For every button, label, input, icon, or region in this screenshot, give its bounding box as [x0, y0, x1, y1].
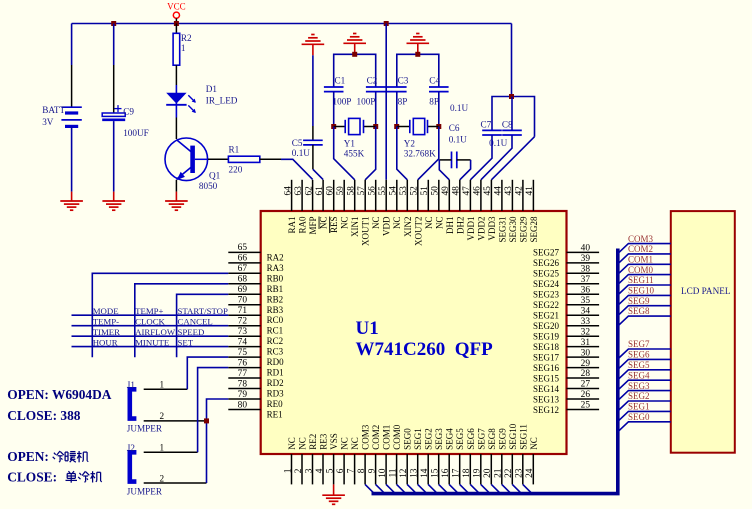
- pin 34 SEG21 right: [567, 314, 600, 316]
- svg-text:SEG9: SEG9: [497, 428, 507, 450]
- pin 29 SEG16 right: [567, 367, 600, 369]
- svg-text:52: 52: [410, 186, 420, 196]
- pin 4 RE3 bottom: [322, 454, 324, 484]
- wire net COM0: [618, 275, 671, 285]
- pin 28 SEG15 right: [567, 377, 600, 379]
- wire C6 to DH1: [439, 160, 449, 180]
- pin 6 NC bottom: [343, 454, 345, 484]
- wire C3 to XIN2: [397, 127, 408, 180]
- pin 24 NC bottom: [532, 454, 534, 484]
- wire C6 to DH2: [460, 160, 471, 180]
- svg-text:4: 4: [315, 468, 325, 473]
- pin 8 COM3 bottom: [364, 454, 366, 484]
- wire net SEG11: [618, 285, 671, 295]
- svg-text:SEG18: SEG18: [533, 342, 560, 352]
- svg-text:DH2: DH2: [455, 217, 465, 235]
- svg-text:31: 31: [581, 338, 591, 348]
- svg-text:NC: NC: [319, 217, 329, 230]
- svg-text:NC: NC: [434, 217, 444, 230]
- svg-text:3: 3: [304, 468, 314, 473]
- svg-text:SEG25: SEG25: [533, 269, 560, 279]
- svg-text:TEMP+: TEMP+: [135, 306, 163, 316]
- pin 53 XIN2 top: [406, 180, 408, 211]
- junction rail-VDD: [384, 21, 389, 26]
- svg-text:U1: U1: [356, 318, 379, 339]
- svg-text:22: 22: [504, 468, 514, 478]
- svg-text:VDD2: VDD2: [476, 217, 486, 241]
- svg-text:15: 15: [431, 468, 441, 478]
- svg-text:D1: D1: [206, 84, 218, 94]
- svg-text:47: 47: [462, 186, 472, 196]
- svg-text:3V: 3V: [42, 117, 54, 127]
- svg-text:R1: R1: [229, 144, 240, 154]
- svg-text:NC: NC: [287, 437, 297, 450]
- svg-text:34: 34: [581, 306, 591, 316]
- wire net COM1: [618, 264, 671, 274]
- svg-text:77: 77: [238, 369, 248, 379]
- svg-text:SEG7: SEG7: [628, 339, 650, 349]
- svg-text:SEG12: SEG12: [533, 405, 559, 415]
- svg-text:XIN2: XIN2: [403, 217, 413, 238]
- svg-text:33: 33: [581, 317, 591, 327]
- pin 7 NC bottom: [354, 454, 356, 484]
- wire pin14 to bus: [428, 484, 436, 492]
- pin 2 NC bottom: [301, 454, 303, 484]
- svg-text:MODE: MODE: [93, 306, 119, 316]
- svg-text:1: 1: [283, 468, 293, 473]
- pin 27 SEG14 right: [567, 388, 600, 390]
- connector J2 JUMPER: [130, 452, 137, 481]
- svg-text:1: 1: [160, 380, 165, 390]
- svg-text:27: 27: [581, 380, 591, 390]
- svg-text:63: 63: [294, 186, 304, 196]
- svg-text:SEG5: SEG5: [628, 360, 650, 370]
- svg-text:0.1U: 0.1U: [449, 135, 467, 145]
- svg-text:0.1U: 0.1U: [292, 148, 310, 158]
- op-amp U1 body (IC W741C260 QFP): [261, 211, 567, 454]
- svg-text:JUMPER: JUMPER: [127, 487, 163, 497]
- svg-text:28: 28: [581, 369, 591, 379]
- svg-text:SEG26: SEG26: [533, 258, 560, 268]
- svg-text:NC: NC: [371, 217, 381, 230]
- svg-text:SEG3: SEG3: [628, 381, 650, 391]
- wire net SEG7: [618, 349, 671, 359]
- svg-text:C5: C5: [292, 138, 303, 148]
- svg-text:J2: J2: [127, 443, 136, 453]
- wire C4 to XOUT2: [418, 127, 439, 180]
- svg-text:COM1: COM1: [628, 255, 653, 265]
- wire BATT to ground: [71, 126, 73, 191]
- wire rail to BATT: [71, 24, 73, 66]
- pin 56 NC top: [375, 180, 377, 211]
- pin 77 RD2 left: [228, 377, 260, 379]
- svg-text:RD3: RD3: [267, 389, 285, 399]
- svg-text:RD0: RD0: [267, 357, 285, 367]
- svg-text:80: 80: [238, 400, 248, 410]
- svg-text:VDD3: VDD3: [487, 216, 497, 240]
- svg-text:R2: R2: [181, 33, 192, 43]
- wire pin11 to bus: [397, 484, 405, 492]
- svg-text:8P: 8P: [398, 96, 408, 106]
- wire J2-1 to RD1: [198, 368, 229, 453]
- pin J1-1: [144, 388, 188, 390]
- pin 19 SEG7 bottom: [480, 454, 482, 484]
- svg-text:9: 9: [367, 468, 377, 473]
- connector J1 JUMPER: [130, 389, 137, 418]
- pin 58 XIN1 top: [354, 180, 356, 211]
- svg-text:VCC: VCC: [167, 2, 186, 12]
- svg-text:SEG22: SEG22: [533, 300, 559, 310]
- svg-text:455K: 455K: [344, 149, 365, 159]
- pin 10 COM1 bottom: [385, 454, 387, 484]
- pin 5 VSS bottom: [333, 454, 335, 484]
- wire net SEG10: [618, 295, 671, 305]
- capacitor C9 100UF: [113, 65, 115, 113]
- svg-text:SEG27: SEG27: [533, 248, 560, 258]
- junction Y1 left: [331, 124, 336, 129]
- svg-text:RES: RES: [329, 217, 339, 234]
- svg-text:C7: C7: [481, 120, 492, 130]
- pin 36 SEG23 right: [567, 293, 600, 295]
- svg-text:66: 66: [238, 254, 248, 264]
- junction C7C8: [509, 94, 514, 99]
- pin 62 MFP top: [312, 180, 314, 211]
- svg-text:68: 68: [238, 275, 248, 285]
- pin 48 DH2 top: [459, 180, 461, 211]
- pin 64 RA1 top: [291, 180, 293, 211]
- svg-text:C3: C3: [398, 76, 409, 86]
- wire to VDD3: [491, 137, 534, 180]
- svg-text:20: 20: [483, 468, 493, 478]
- svg-text:START/STOP: START/STOP: [178, 306, 229, 316]
- svg-text:72: 72: [238, 317, 248, 327]
- pin 17 SEG5 bottom: [459, 454, 461, 484]
- wire pin12 to bus: [407, 484, 415, 492]
- svg-text:55: 55: [378, 186, 388, 196]
- svg-text:RA2: RA2: [267, 252, 284, 262]
- ground above Y2 net: [417, 43, 419, 54]
- svg-text:30: 30: [581, 348, 591, 358]
- svg-text:17: 17: [452, 468, 462, 478]
- svg-text:RC1: RC1: [267, 326, 284, 336]
- pin 75 RD0 left: [228, 356, 260, 358]
- wire VSS: [333, 484, 335, 495]
- svg-text:75: 75: [238, 348, 248, 358]
- svg-text:NC: NC: [340, 437, 350, 450]
- wire pin23 to bus: [523, 484, 531, 492]
- svg-text:42: 42: [515, 186, 525, 196]
- wire R1 to MFP: [260, 158, 281, 160]
- wire C2 to Y1: [375, 92, 377, 127]
- svg-text:2: 2: [160, 411, 165, 421]
- svg-text:Y2: Y2: [404, 139, 416, 149]
- svg-text:CLOSE: 388: CLOSE: 388: [7, 408, 81, 423]
- svg-text:6: 6: [336, 468, 346, 473]
- pin J2-1: [144, 451, 198, 453]
- svg-text:COM2: COM2: [371, 425, 381, 450]
- svg-text:60: 60: [326, 186, 336, 196]
- svg-text:VDD1: VDD1: [466, 217, 476, 241]
- pin 30 SEG17 right: [567, 356, 600, 358]
- pin 49 DH1 top: [448, 180, 450, 211]
- svg-text:BATT: BATT: [42, 105, 65, 115]
- svg-text:SEG4: SEG4: [445, 428, 455, 450]
- svg-text:64: 64: [283, 186, 293, 196]
- wire pin15 to bus: [439, 484, 447, 492]
- svg-text:TEMP-: TEMP-: [93, 317, 119, 327]
- pin 61 NC top: [322, 180, 324, 211]
- wire C5 to pin61: [312, 145, 314, 169]
- wire rail to C9: [113, 24, 115, 66]
- svg-text:48: 48: [452, 186, 462, 196]
- svg-text:SEG6: SEG6: [466, 428, 476, 450]
- wire net COM3: [618, 244, 671, 254]
- pin 38 SEG25 right: [567, 272, 600, 274]
- pin 3 RE2 bottom: [312, 454, 314, 484]
- wire RB2 column: [177, 294, 229, 357]
- svg-text:0.1U: 0.1U: [450, 103, 468, 113]
- svg-text:46: 46: [473, 186, 483, 196]
- svg-text:NC: NC: [350, 437, 360, 450]
- pin 42 SEG29 top: [522, 180, 524, 211]
- svg-text:SEG17: SEG17: [533, 352, 560, 362]
- wire net SEG9: [618, 306, 671, 316]
- svg-text:36: 36: [581, 286, 591, 296]
- svg-text:SEG4: SEG4: [628, 370, 650, 380]
- svg-text:19: 19: [473, 468, 483, 478]
- svg-text:58: 58: [347, 186, 357, 196]
- svg-text:8050: 8050: [199, 181, 218, 191]
- svg-text:21: 21: [494, 468, 504, 478]
- svg-text:37: 37: [581, 275, 591, 285]
- pin 72 RC1 left: [228, 325, 260, 327]
- svg-text:SEG10: SEG10: [628, 286, 655, 296]
- svg-text:SEG24: SEG24: [533, 279, 560, 289]
- svg-text:IR_LED: IR_LED: [206, 96, 238, 106]
- capacitor C7 0.1U: [482, 129, 502, 131]
- pin 73 RC2 left: [228, 335, 260, 337]
- wire pin19 to bus: [481, 484, 489, 492]
- svg-text:NC: NC: [340, 217, 350, 230]
- svg-text:RA0: RA0: [298, 216, 308, 234]
- resistor R1 220: [228, 156, 259, 162]
- wire pin13 to bus: [418, 484, 426, 492]
- pin 13 SEG1 bottom: [417, 454, 419, 484]
- svg-text:61: 61: [315, 186, 325, 196]
- svg-text:OPEN: W6904DA: OPEN: W6904DA: [7, 387, 112, 402]
- wire net SEG3: [618, 391, 671, 401]
- wire R2 to D1: [175, 65, 177, 85]
- pin 11 COM0 bottom: [396, 454, 398, 484]
- wire C7-C8 top: [492, 97, 535, 137]
- svg-text:69: 69: [238, 285, 248, 295]
- svg-text:JUMPER: JUMPER: [127, 424, 163, 434]
- wire pin8 to bus: [365, 484, 373, 492]
- junction Y1 top: [352, 52, 357, 57]
- wire C4 to Y2: [438, 92, 440, 127]
- pin 69 RB2 left: [228, 293, 260, 295]
- svg-text:SEG0: SEG0: [628, 412, 650, 422]
- pin 44 SEG31 top: [501, 180, 503, 211]
- svg-text:SEG14: SEG14: [533, 384, 560, 394]
- svg-text:57: 57: [357, 186, 367, 196]
- svg-text:Q1: Q1: [209, 170, 221, 180]
- svg-text:C2: C2: [367, 76, 378, 86]
- wire net SEG8: [618, 316, 671, 326]
- svg-text:1: 1: [160, 443, 165, 453]
- pin 16 SEG4 bottom: [448, 454, 450, 484]
- resistor R2 1: [175, 24, 177, 34]
- pin 51 NC top: [427, 180, 429, 211]
- svg-text:56: 56: [368, 186, 378, 196]
- wire pin20 to bus: [491, 484, 499, 492]
- svg-text:SEG23: SEG23: [533, 290, 560, 300]
- pin 43 SEG30 top: [511, 180, 513, 211]
- pin 57 XOUT1 top: [364, 180, 366, 211]
- svg-text:5: 5: [325, 468, 335, 473]
- capacitor C8 0.1U: [502, 129, 522, 131]
- pin 80 RE1 left: [228, 409, 260, 411]
- ground VSS: [322, 494, 345, 496]
- svg-text:59: 59: [336, 186, 346, 196]
- capacitor C6 0.1U: [451, 152, 453, 169]
- svg-text:SEG16: SEG16: [533, 363, 560, 373]
- svg-text:1: 1: [181, 43, 186, 53]
- pin 76 RD1 left: [228, 367, 260, 369]
- pin 32 SEG19 right: [567, 335, 600, 337]
- svg-text:SEG6: SEG6: [628, 350, 650, 360]
- wire RC2 row: [72, 335, 229, 337]
- pin 33 SEG20 right: [567, 325, 600, 327]
- svg-text:SEG13: SEG13: [533, 394, 560, 404]
- junction rail-R2: [174, 21, 179, 26]
- wire pin21 to bus: [502, 484, 510, 492]
- pin 15 SEG3 bottom: [438, 454, 440, 484]
- capacitor C1 100P: [324, 86, 344, 88]
- pin 70 RB3 left: [228, 304, 260, 306]
- svg-text:14: 14: [420, 468, 430, 478]
- pin 23 SEG11 bottom: [522, 454, 524, 484]
- wire VCC to VDD pin55: [385, 24, 387, 180]
- svg-text:RB1: RB1: [267, 284, 284, 294]
- pin 41 SEG28 top: [532, 180, 534, 211]
- pin 26 SEG13 right: [567, 398, 600, 400]
- svg-text:100UF: 100UF: [123, 128, 149, 138]
- svg-text:LCD PANEL: LCD PANEL: [681, 286, 731, 296]
- svg-text:41: 41: [525, 186, 535, 196]
- junction Y2 right: [436, 124, 441, 129]
- svg-text:NC: NC: [392, 217, 402, 230]
- pin 20 SEG8 bottom: [490, 454, 492, 484]
- svg-text:2: 2: [160, 473, 165, 483]
- capacitor C2 100P: [366, 86, 386, 88]
- ground above Y1 net: [354, 43, 356, 54]
- svg-text:C9: C9: [123, 106, 134, 116]
- battery BATT 3V: [71, 65, 73, 107]
- svg-text:COM0: COM0: [628, 265, 654, 275]
- svg-text:SEG8: SEG8: [628, 306, 650, 316]
- svg-text:32.768K: 32.768K: [404, 149, 436, 159]
- svg-text:SEG7: SEG7: [476, 428, 486, 450]
- wire pin10 to bus: [386, 484, 394, 492]
- svg-text:SEG9: SEG9: [628, 296, 650, 306]
- pin 40 SEG27 right: [567, 251, 600, 253]
- svg-text:51: 51: [420, 186, 430, 196]
- wire C1 to Y1: [333, 92, 335, 127]
- svg-text:SEG20: SEG20: [533, 321, 560, 331]
- wire RB0 column: [92, 273, 228, 357]
- svg-text:CLOCK: CLOCK: [135, 317, 165, 327]
- svg-text:40: 40: [581, 244, 591, 254]
- svg-text:29: 29: [581, 359, 591, 369]
- svg-text:12: 12: [399, 468, 409, 478]
- svg-text:XIN1: XIN1: [350, 217, 360, 238]
- svg-text:43: 43: [504, 186, 514, 196]
- svg-text:CLOSE:: CLOSE:: [7, 469, 57, 484]
- svg-text:RE0: RE0: [267, 399, 284, 409]
- svg-text:23: 23: [515, 468, 525, 478]
- svg-text:67: 67: [238, 264, 248, 274]
- svg-text:100P: 100P: [357, 96, 376, 106]
- pin 25 SEG12 right: [567, 409, 600, 411]
- pin 46 VDD2 top: [480, 180, 482, 211]
- LCD panel: [671, 211, 735, 453]
- capacitor C4 8P: [429, 86, 449, 88]
- svg-text:J1: J1: [127, 380, 136, 390]
- pin 79 RE0 left: [228, 398, 260, 400]
- pin 37 SEG24 right: [567, 283, 600, 285]
- wire C9 to ground: [113, 121, 115, 192]
- pin J2-2: [144, 482, 207, 484]
- pin 67 RB0 left: [228, 272, 260, 274]
- pin 35 SEG22 right: [567, 304, 600, 306]
- svg-text:39: 39: [581, 254, 591, 264]
- svg-text:MINUTE: MINUTE: [135, 337, 169, 347]
- wire net SEG6: [618, 359, 671, 369]
- wire net COM2: [618, 254, 671, 264]
- svg-text:25: 25: [581, 401, 591, 411]
- wire net SEG5: [618, 370, 671, 380]
- svg-text:COM2: COM2: [628, 244, 653, 254]
- svg-text:VDD: VDD: [382, 216, 392, 236]
- svg-text:35: 35: [581, 296, 591, 306]
- svg-text:COM1: COM1: [382, 425, 392, 450]
- svg-text:53: 53: [399, 186, 409, 196]
- svg-text:RD1: RD1: [267, 368, 284, 378]
- pin 12 SEG0 bottom: [406, 454, 408, 484]
- pin 14 SEG2 bottom: [427, 454, 429, 484]
- svg-text:13: 13: [410, 468, 420, 478]
- svg-text:SPEED: SPEED: [178, 327, 205, 337]
- wire rail down right: [511, 24, 513, 97]
- svg-text:C6: C6: [449, 123, 460, 133]
- junction J1-2: [204, 418, 209, 423]
- svg-text:7: 7: [346, 468, 356, 473]
- svg-text:RC2: RC2: [267, 336, 284, 346]
- pin 1 NC bottom: [291, 454, 293, 484]
- svg-text:VSS: VSS: [329, 433, 339, 450]
- wire ground to C5: [312, 55, 314, 126]
- svg-text:79: 79: [238, 390, 248, 400]
- svg-text:RB2: RB2: [267, 294, 284, 304]
- svg-text:RD2: RD2: [267, 378, 284, 388]
- svg-text:11: 11: [388, 468, 398, 477]
- svg-text:62: 62: [304, 186, 314, 196]
- svg-text:XOUT2: XOUT2: [413, 217, 423, 247]
- svg-text:10: 10: [378, 468, 388, 478]
- ground above C5: [312, 44, 314, 55]
- pin 39 SEG26 right: [567, 262, 600, 264]
